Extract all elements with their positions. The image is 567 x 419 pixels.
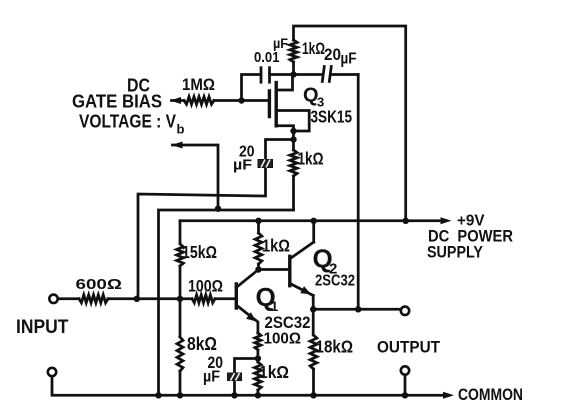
svg-text:18kΩ: 18kΩ [316, 337, 354, 357]
svg-text:3SK15: 3SK15 [311, 107, 353, 127]
svg-text:OUTPUT: OUTPUT [377, 338, 441, 357]
svg-text:0.01: 0.01 [254, 50, 280, 66]
svg-text:1kΩ: 1kΩ [262, 236, 290, 256]
svg-text:8kΩ: 8kΩ [187, 334, 217, 354]
svg-text:1MΩ: 1MΩ [182, 76, 215, 94]
svg-text:µF: µF [233, 157, 252, 174]
svg-text:2SC32: 2SC32 [315, 273, 355, 290]
svg-text:100Ω: 100Ω [264, 331, 302, 348]
svg-text:µF: µF [273, 35, 288, 51]
svg-text:µF: µF [203, 369, 220, 386]
svg-text:20: 20 [324, 46, 341, 64]
svg-text:15kΩ: 15kΩ [182, 242, 217, 262]
svg-text:b: b [177, 122, 185, 137]
svg-text:INPUT: INPUT [16, 317, 69, 338]
svg-text:µF: µF [341, 51, 357, 68]
svg-text:2SC32: 2SC32 [265, 313, 311, 332]
svg-text:COMMON: COMMON [458, 386, 523, 404]
svg-text:VOLTAGE : V: VOLTAGE : V [79, 112, 176, 132]
svg-text:SUPPLY: SUPPLY [427, 244, 483, 262]
svg-text:100Ω: 100Ω [188, 277, 223, 296]
svg-text:1: 1 [271, 298, 279, 314]
svg-text:GATE BIAS: GATE BIAS [72, 92, 162, 112]
svg-text:1kΩ: 1kΩ [259, 362, 289, 382]
svg-text:1kΩ: 1kΩ [302, 39, 325, 58]
svg-text:1kΩ: 1kΩ [298, 149, 324, 169]
svg-text:600Ω: 600Ω [76, 277, 123, 293]
